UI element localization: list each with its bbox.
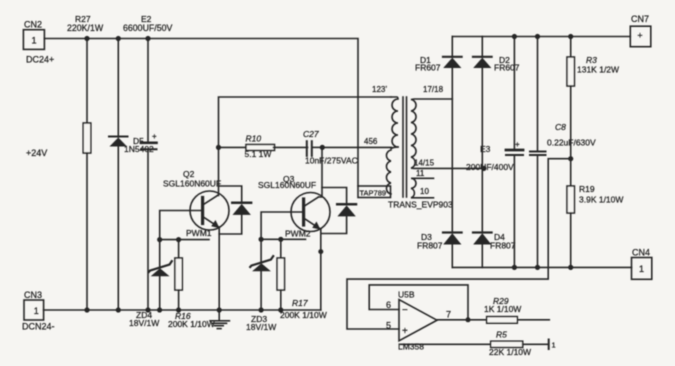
resistor R17: [277, 239, 327, 320]
svg-text:7: 7: [446, 310, 451, 320]
svg-text:PWM2: PWM2: [285, 229, 311, 239]
node rail R27 bottom: [84, 307, 89, 312]
node on Q3 emitter: [318, 249, 323, 254]
svg-text:1: 1: [552, 341, 556, 350]
svg-text:18V/1W: 18V/1W: [246, 322, 276, 332]
wire gate network Q2: [160, 239, 209, 241]
svg-text:22K 1/10W: 22K 1/10W: [489, 347, 531, 357]
node output feedback: [466, 317, 471, 322]
node top rail R3: [568, 34, 573, 39]
transistor Q2: [163, 169, 229, 238]
svg-text:CN4: CN4: [632, 248, 650, 258]
wire top rail DC24+: [44, 39, 358, 187]
svg-text:SGL160N60UF: SGL160N60UF: [258, 180, 316, 190]
svg-text:5: 5: [386, 321, 391, 331]
wire Q2 base: [160, 211, 203, 240]
node 14/15 on D2 line: [481, 166, 486, 171]
svg-text:PWM1: PWM1: [186, 228, 212, 238]
node R10 left on Q2 collector: [216, 145, 221, 150]
wire output bottom rail: [452, 266, 631, 268]
wire to R5: [401, 343, 491, 345]
svg-text:1: 1: [31, 36, 36, 46]
svg-text:456: 456: [364, 137, 378, 146]
svg-text:1: 1: [34, 306, 39, 316]
svg-text:6600UF/50V: 6600UF/50V: [123, 23, 173, 33]
tap box TAP789: [358, 186, 391, 198]
node on rail at D5: [116, 36, 121, 41]
svg-text:CN7: CN7: [631, 14, 649, 24]
diode D4: [473, 232, 516, 267]
svg-text:FR607: FR607: [415, 63, 441, 73]
node bottom rail C8: [535, 265, 540, 270]
capacitor E3: [466, 37, 523, 268]
ground: [210, 310, 229, 329]
resistor R5: [489, 330, 548, 358]
core: [402, 97, 404, 197]
svg-text:131K 1/2W: 131K 1/2W: [577, 65, 619, 75]
wire Q3 emitter: [320, 229, 321, 311]
node rail ZD4: [157, 307, 162, 312]
primary winding 123: [391, 97, 398, 147]
svg-text:14/15: 14/15: [414, 159, 435, 168]
diode across Q2: [219, 186, 252, 234]
svg-text:TAP789’: TAP789’: [360, 189, 389, 198]
svg-text:1: 1: [639, 264, 644, 274]
svg-text:0.22uF/630V: 0.22uF/630V: [547, 138, 596, 148]
resistor R16: [168, 240, 215, 329]
svg-text:FR807: FR807: [490, 241, 516, 251]
svg-text:FR607: FR607: [494, 63, 520, 73]
node top rail E3: [512, 34, 517, 39]
node rail R17: [278, 307, 283, 312]
svg-text:C27: C27: [303, 129, 319, 139]
svg-text:Q2: Q2: [183, 169, 195, 179]
svg-text:+: +: [637, 31, 642, 41]
svg-text:5.1 1W: 5.1 1W: [245, 149, 272, 159]
svg-text:FR807: FR807: [417, 241, 443, 251]
node rail R16: [176, 307, 181, 312]
connector CN4: [632, 248, 652, 280]
svg-text:R17: R17: [292, 298, 308, 308]
node bottom rail R19: [568, 265, 573, 270]
resistor R29: [484, 296, 549, 323]
resistor R3: [567, 37, 619, 159]
wire Q2 emitter: [218, 227, 220, 310]
svg-text:CN2: CN2: [24, 20, 42, 30]
svg-text:CN3: CN3: [24, 290, 42, 300]
node gate ZD3: [259, 237, 264, 242]
resistor R19: [567, 159, 623, 268]
svg-text:18V/1W: 18V/1W: [129, 318, 159, 328]
svg-text:C8: C8: [555, 122, 566, 132]
svg-text:220K/1W: 220K/1W: [67, 23, 104, 33]
connector CN3: [22, 290, 55, 332]
node on rail at E2: [145, 36, 150, 41]
node top rail C8: [535, 34, 540, 39]
wire Q3 collector: [319, 147, 323, 197]
diode across Q3: [321, 188, 356, 234]
wire feedback from divider to op-amp: [347, 159, 571, 329]
svg-text:R10: R10: [246, 134, 262, 144]
svg-text:−: −: [402, 305, 408, 316]
svg-text:6: 6: [386, 300, 391, 310]
node bottom rail E3: [512, 265, 517, 270]
capacitor E2: [123, 14, 173, 310]
node C27 right on Q3 collector: [320, 145, 325, 150]
connector CN7: [630, 14, 651, 47]
transistor Q3: [258, 174, 330, 239]
svg-text:+: +: [152, 132, 157, 141]
svg-text:11: 11: [416, 169, 425, 178]
capacitor C8: [530, 37, 596, 268]
diode D5: [109, 39, 154, 311]
node rail E2 bottom: [145, 307, 150, 312]
node rail D5 bottom: [116, 307, 121, 312]
zener ZD4: [129, 240, 172, 328]
svg-text:10: 10: [420, 187, 429, 196]
svg-text:200UF/400V: 200UF/400V: [466, 162, 514, 172]
node gate R16: [176, 237, 181, 242]
op-amp U5B: [386, 290, 451, 352]
wire Q2 collector: [218, 97, 392, 196]
svg-text:R3: R3: [586, 55, 597, 65]
svg-text:R5: R5: [496, 330, 507, 340]
svg-text:1K 1/10W: 1K 1/10W: [484, 304, 521, 314]
wire bottom rail DCN24-: [44, 309, 321, 311]
wire Q3 base: [261, 212, 304, 239]
zener ZD3: [246, 239, 276, 332]
node on rail at R27: [84, 36, 89, 41]
transformer T1 TRANS_EVP903: [358, 85, 484, 210]
svg-text:+24V: +24V: [26, 148, 47, 158]
resistor R10: [219, 134, 308, 160]
svg-text:+: +: [515, 140, 520, 149]
capacitor C27: [303, 129, 358, 166]
connector CN2: [23, 20, 54, 65]
svg-text:10nF/275VAC: 10nF/275VAC: [305, 156, 358, 166]
svg-text:DC24+: DC24+: [26, 55, 54, 65]
primary winding 456: [386, 150, 391, 194]
svg-text:TRANS_EVP903: TRANS_EVP903: [388, 200, 453, 210]
svg-text:DCN24-: DCN24-: [22, 322, 55, 332]
resistor R27: [67, 14, 104, 310]
terminal pin: [549, 340, 556, 350]
svg-text:17/18: 17/18: [423, 85, 444, 94]
svg-text:123’: 123’: [372, 85, 387, 94]
node R3 R19 divider: [568, 156, 573, 161]
node gate ZD4: [157, 237, 162, 242]
svg-text:200K 1/10W: 200K 1/10W: [280, 310, 327, 320]
svg-text:LM358: LM358: [398, 342, 424, 352]
svg-text:U5B: U5B: [398, 290, 415, 300]
svg-text:SGL160N60UF: SGL160N60UF: [163, 179, 221, 189]
wire op-amp output pin7: [437, 319, 487, 321]
diode D1: [415, 37, 462, 233]
svg-text:E3: E3: [480, 144, 491, 154]
svg-text:+: +: [402, 326, 408, 337]
diode D3: [417, 232, 462, 267]
node rail ZD3: [259, 307, 264, 312]
wire output top rail: [452, 36, 630, 38]
wire C27 to winding 456: [322, 146, 391, 148]
svg-text:R19: R19: [579, 184, 595, 194]
winding 123 to 456 junction: [391, 147, 398, 149]
svg-text:3.9K 1/10W: 3.9K 1/10W: [579, 195, 623, 205]
diode D2: [473, 37, 520, 233]
wire gate network Q3: [261, 238, 305, 240]
node rail ground: [217, 307, 222, 312]
secondary winding 17/18 to 14/15: [411, 99, 484, 168]
secondary winding 11 to 10: [411, 178, 434, 198]
svg-text:200K 1/10W: 200K 1/10W: [168, 319, 215, 329]
node gate R17: [278, 237, 283, 242]
wire op-amp feedback loop pin6: [369, 285, 468, 320]
